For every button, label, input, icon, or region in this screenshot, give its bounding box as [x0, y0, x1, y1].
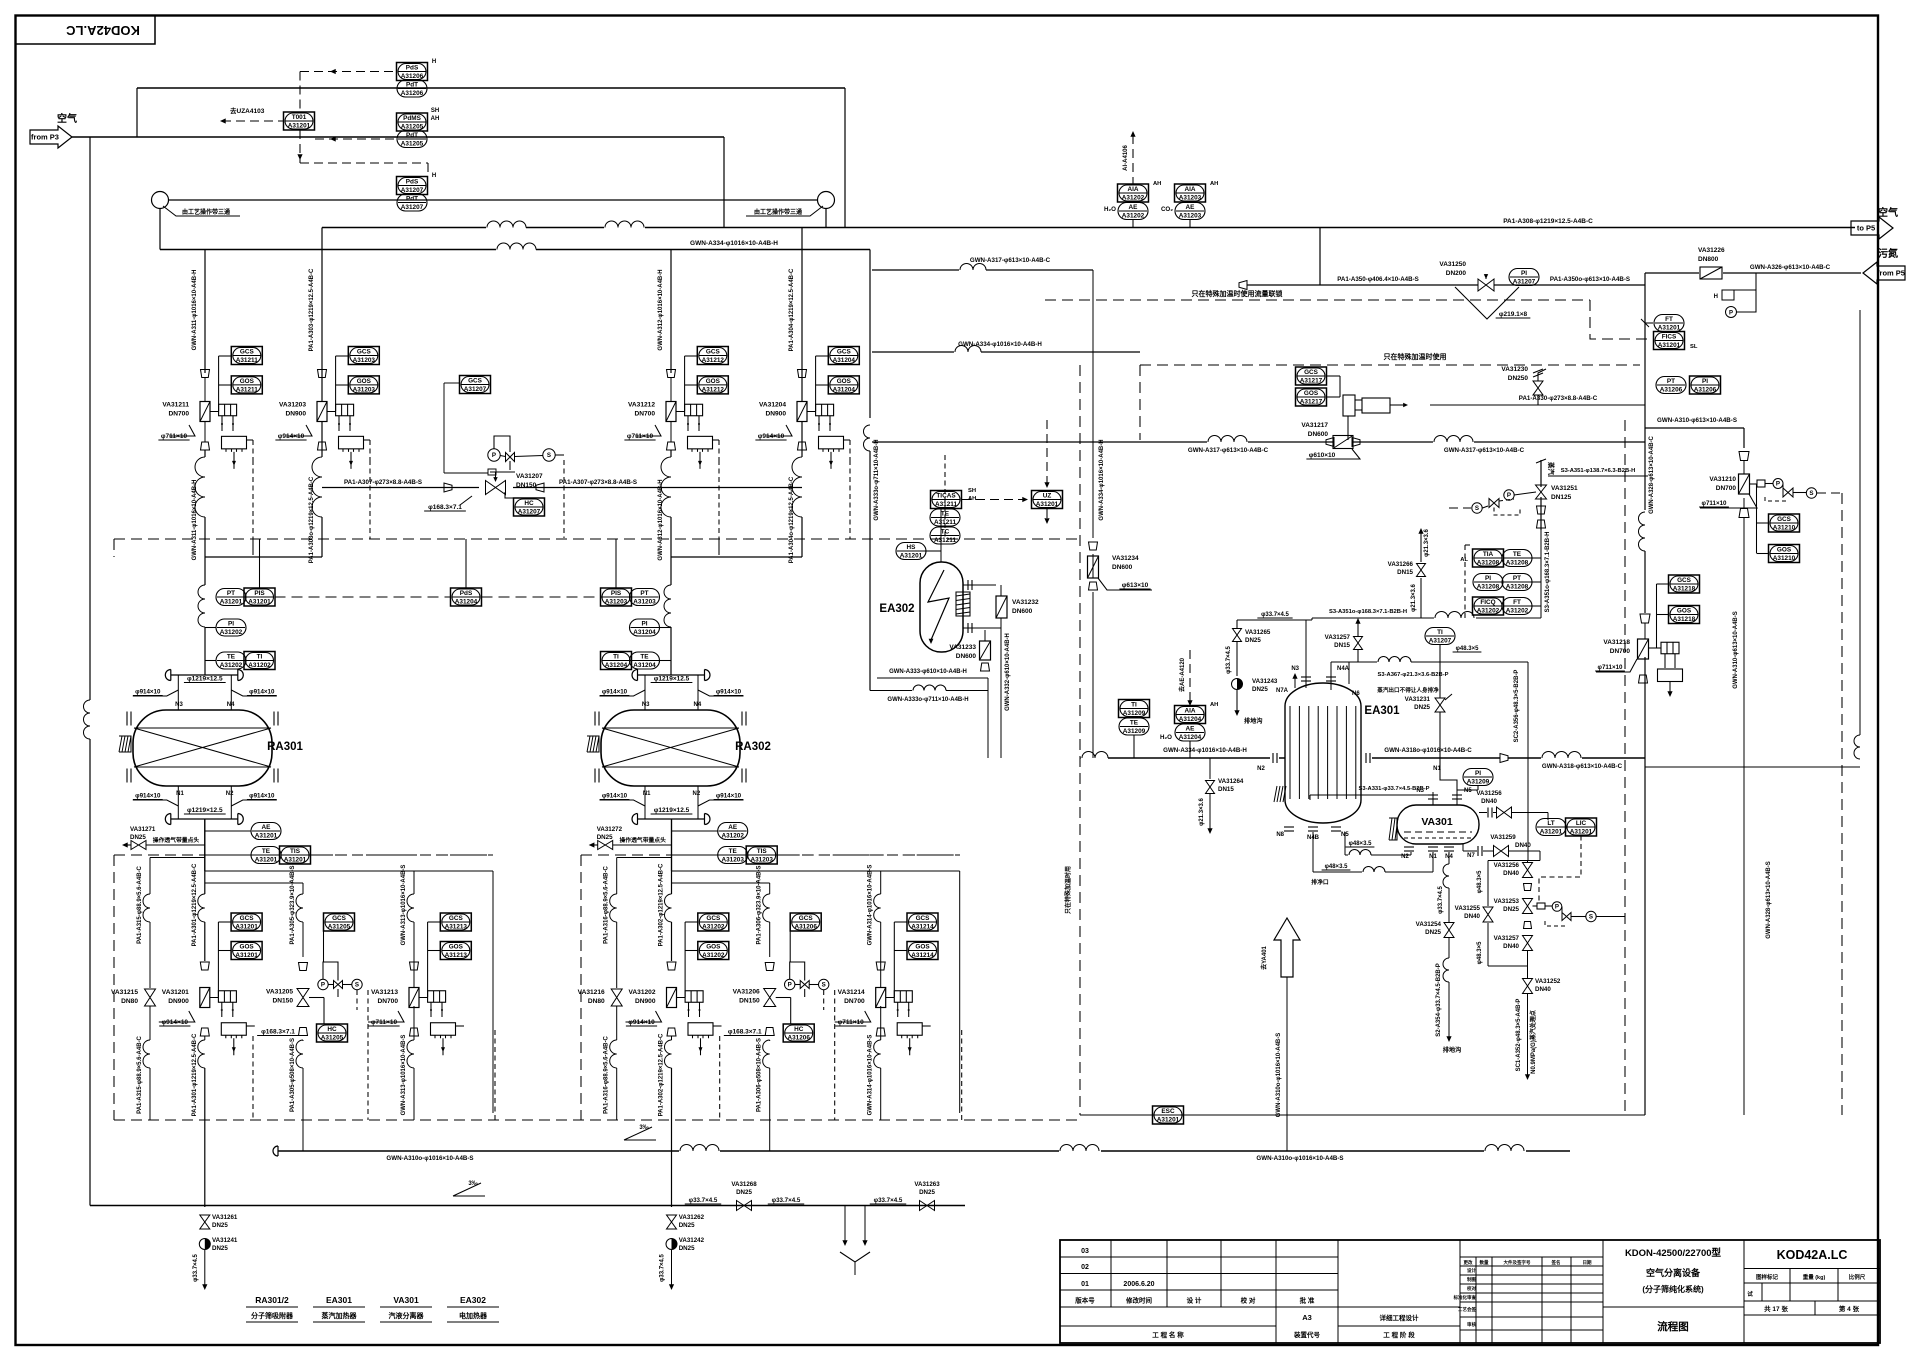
pipe riser x205 adsorber RA301 inlet [195, 250, 205, 676]
svg-text:VA31211: VA31211 [162, 402, 189, 409]
valve VA31252 DN40 [1516, 978, 1561, 1080]
svg-text:VA31217: VA31217 [1301, 422, 1328, 429]
svg-text:φ48.3×5: φ48.3×5 [1477, 941, 1483, 964]
svg-text:GWN-A333-φ610×10-A4B-H: GWN-A333-φ610×10-A4B-H [889, 669, 967, 675]
svg-text:TE: TE [1513, 551, 1522, 558]
svg-text:A31204: A31204 [1179, 716, 1202, 723]
svg-text:PIS: PIS [254, 590, 265, 597]
svg-text:KOD42A.LC: KOD42A.LC [1777, 1248, 1848, 1262]
svg-text:φ33.7×4.5: φ33.7×4.5 [772, 1197, 801, 1204]
svg-text:只在特殊加温时使用流量联锁: 只在特殊加温时使用流量联锁 [1192, 289, 1283, 298]
svg-text:DN15: DN15 [1218, 786, 1234, 793]
svg-text:A31201: A31201 [1157, 1117, 1180, 1124]
svg-text:A31203: A31203 [751, 857, 774, 864]
svg-text:试: 试 [1747, 1290, 1753, 1298]
svg-text:N8: N8 [1276, 832, 1284, 838]
pipe label PA1-A304 upper [789, 268, 795, 563]
svg-text:VA31256: VA31256 [1476, 790, 1502, 797]
svg-text:GWN-A317-φ613×10-A4B-C: GWN-A317-φ613×10-A4B-C [1188, 447, 1269, 454]
svg-text:A31201: A31201 [1036, 501, 1059, 508]
svg-text:工 程 名 称: 工 程 名 称 [1152, 1330, 1184, 1339]
instrument ESC A31201 [1153, 1106, 1184, 1124]
svg-text:GWN-A328-φ613×10-A4B-C: GWN-A328-φ613×10-A4B-C [1649, 435, 1655, 513]
svg-text:GCS: GCS [799, 915, 814, 922]
valve VA31241 DN25 ball [193, 1237, 238, 1290]
svg-text:PdS: PdS [406, 179, 419, 186]
instrument AIA A31203 CO2 analyzer [1161, 181, 1218, 213]
instrument GCS A31213 [428, 913, 472, 997]
svg-text:AE: AE [1186, 204, 1196, 211]
svg-text:DN800: DN800 [1698, 256, 1719, 263]
svg-text:VA31257: VA31257 [1494, 935, 1520, 942]
pipe PA1-A330 [1430, 395, 1645, 405]
dashed riser x253 [252, 460, 254, 555]
valve VA31242 DN25 ball [660, 1237, 705, 1290]
drain funnel [840, 1206, 870, 1276]
svg-text:S3-A351o-φ168.3×7.1-B2B-H: S3-A351o-φ168.3×7.1-B2B-H [1545, 532, 1551, 613]
svg-text:TI: TI [257, 654, 263, 661]
svg-text:A31206: A31206 [788, 1035, 811, 1042]
svg-text:P: P [321, 982, 325, 989]
svg-text:A31203: A31203 [353, 357, 376, 364]
svg-text:A31203: A31203 [722, 857, 745, 864]
svg-text:GOS: GOS [239, 944, 254, 951]
instrument PdS A31206 [397, 59, 437, 81]
svg-text:EA301: EA301 [326, 1295, 352, 1305]
svg-text:A31213: A31213 [445, 924, 468, 931]
svg-text:PA1-A315-φ88.9×5.6-A4B-C: PA1-A315-φ88.9×5.6-A4B-C [137, 865, 143, 943]
svg-text:VA31230: VA31230 [1501, 366, 1528, 373]
VA301 nozzles [1401, 788, 1475, 860]
svg-text:HC: HC [327, 1026, 337, 1033]
svg-text:VA31262: VA31262 [679, 1214, 705, 1221]
svg-text:GCS: GCS [449, 915, 464, 922]
valve VA31211 DN700 with actuator [158, 370, 253, 469]
svg-text:PI: PI [228, 621, 234, 628]
svg-text:详细工程设计: 详细工程设计 [1380, 1313, 1420, 1322]
svg-text:DN125: DN125 [1551, 494, 1572, 501]
svg-text:A31209: A31209 [1123, 710, 1146, 717]
positioner loop of VA31205 [318, 962, 362, 1010]
svg-text:SH: SH [968, 488, 976, 494]
instrument PdT A31207 [397, 194, 427, 211]
bottom manifold of RA302 [600, 786, 744, 871]
svg-text:PI: PI [1485, 575, 1491, 582]
svg-text:A31206: A31206 [1660, 387, 1683, 394]
svg-text:TI: TI [613, 654, 619, 661]
svg-text:A31201: A31201 [248, 599, 271, 606]
valve VA31271 DN25 [122, 826, 205, 850]
instrument TICAS A31211 [931, 488, 977, 562]
vessel EA301 steam heater [1274, 683, 1400, 823]
positioner loop VA31207 [488, 436, 564, 538]
svg-text:A31208: A31208 [1506, 584, 1529, 591]
svg-text:TE: TE [227, 654, 236, 661]
instrument HC A31207 [505, 492, 545, 516]
svg-text:蒸汽出口不得让人身排净: 蒸汽出口不得让人身排净 [1377, 686, 1439, 694]
positioner VA31210 [1750, 479, 1843, 502]
svg-text:UZ: UZ [1043, 493, 1052, 500]
pipe GWN-A310o y1151 [273, 1145, 1570, 1162]
svg-text:VA31242: VA31242 [679, 1237, 705, 1244]
svg-text:φ711×10: φ711×10 [161, 433, 188, 440]
svg-text:排地沟: 排地沟 [1443, 1046, 1462, 1054]
svg-text:PA1-A316-φ88.9×5.6-A4B-C: PA1-A316-φ88.9×5.6-A4B-C [604, 1035, 610, 1113]
svg-text:空气: 空气 [1878, 206, 1898, 219]
svg-text:GWN-A318-φ613×10-A4B-C: GWN-A318-φ613×10-A4B-C [1542, 763, 1623, 770]
pipe riser x322 [312, 228, 322, 558]
positioner VA31251 [1449, 490, 1536, 515]
instrument PIS A31201 [244, 539, 275, 606]
pipe GWN-A334 y352 [872, 341, 1140, 352]
signal lines PdS cluster [297, 69, 428, 177]
svg-text:3‰: 3‰ [468, 1181, 477, 1187]
pipe label GWN-A311 upper [192, 270, 198, 561]
svg-text:操作透气带量点头: 操作透气带量点头 [153, 836, 200, 844]
svg-text:H: H [432, 59, 436, 65]
valve VA31263 DN25 [914, 1181, 940, 1211]
instrument PI A31209 [1457, 769, 1493, 791]
svg-text:GWN-A310-φ613×10-A4B-S: GWN-A310-φ613×10-A4B-S [1733, 611, 1739, 688]
svg-text:装置代号: 装置代号 [1293, 1330, 1321, 1339]
svg-text:VA31266: VA31266 [1388, 561, 1414, 568]
pipe PA1-A350 y285 [1239, 276, 1645, 290]
instrument GOS A31214 [894, 942, 938, 960]
svg-text:N1: N1 [643, 791, 651, 797]
control valve VA31205 DN150 [257, 963, 324, 1036]
svg-text:流程图: 流程图 [1657, 1320, 1689, 1333]
svg-text:FT: FT [1665, 316, 1673, 323]
pipe riser x802 [792, 228, 802, 558]
svg-text:A31204: A31204 [1179, 734, 1202, 741]
svg-text:A31202: A31202 [702, 924, 725, 931]
svg-text:DN80: DN80 [121, 998, 138, 1005]
svg-text:VA31253: VA31253 [1494, 898, 1520, 905]
svg-text:KOD42A.LC: KOD42A.LC [66, 23, 140, 38]
svg-text:VA31216: VA31216 [578, 989, 605, 996]
instrument GCS A31207 [444, 376, 491, 474]
instrument GCS A31211 [219, 347, 263, 412]
svg-text:VA31213: VA31213 [371, 989, 398, 996]
svg-text:DN25: DN25 [1425, 929, 1441, 936]
control interlock trunk dashed y539 [114, 539, 1080, 557]
svg-text:RA301: RA301 [267, 741, 303, 753]
svg-text:DN200: DN200 [1446, 270, 1467, 277]
svg-text:φ168.3×7.1: φ168.3×7.1 [261, 1029, 295, 1036]
svg-text:TE: TE [1130, 720, 1139, 727]
instrument PI A31204 [630, 619, 672, 636]
instrument AE A31201 [205, 823, 281, 840]
svg-text:DN600: DN600 [1308, 431, 1329, 438]
svg-text:GWN-A332-φ610×10-A4B-H: GWN-A332-φ610×10-A4B-H [1005, 633, 1011, 711]
flag from P3 [30, 126, 72, 148]
control valve VA31206 DN150 [724, 963, 791, 1036]
svg-text:φ914×10: φ914×10 [716, 689, 742, 696]
svg-text:TE: TE [640, 654, 649, 661]
svg-text:AE: AE [1186, 726, 1196, 733]
svg-text:A31202: A31202 [702, 952, 725, 959]
valve VA31250 DN200 [1439, 261, 1494, 291]
valve VA31255 DN40 [1455, 905, 1493, 922]
instrument PdS A31207 [397, 173, 437, 195]
svg-text:φ914×10: φ914×10 [135, 689, 161, 696]
instrument TI A31204 [601, 652, 632, 670]
svg-text:VA31250: VA31250 [1439, 261, 1466, 268]
dashed box special heating [1140, 352, 1640, 440]
pipe riser x137 left [136, 88, 138, 137]
svg-text:A31208: A31208 [1477, 560, 1500, 567]
svg-text:(分子筛纯化系统): (分子筛纯化系统) [1642, 1284, 1704, 1294]
svg-text:数量: 数量 [1480, 1259, 1489, 1266]
svg-text:AE: AE [1129, 204, 1139, 211]
svg-text:A31209: A31209 [1467, 779, 1490, 786]
svg-text:TIA: TIA [1483, 551, 1494, 558]
svg-text:N2: N2 [226, 791, 234, 797]
svg-text:VA31203: VA31203 [279, 402, 306, 409]
instrument PdMS A31205 [397, 108, 440, 131]
svg-text:污氮: 污氮 [1878, 247, 1898, 260]
svg-text:A31211: A31211 [236, 387, 258, 394]
svg-text:GWN-A317-φ613×10-A4B-C: GWN-A317-φ613×10-A4B-C [1444, 447, 1525, 454]
valve VA31266 DN15 [1388, 528, 1430, 618]
svg-text:PI: PI [1702, 378, 1708, 385]
svg-text:VA31268: VA31268 [731, 1181, 757, 1188]
svg-text:P: P [1555, 904, 1559, 911]
svg-text:φ914×10: φ914×10 [758, 433, 785, 440]
svg-text:T001: T001 [292, 114, 307, 121]
valve VA31207 DN150 control [424, 472, 544, 511]
instrument AIA A31202 H2O analyzer [1104, 181, 1161, 213]
svg-text:PA1-A304-φ1219×12.5-A4B-C: PA1-A304-φ1219×12.5-A4B-C [789, 268, 795, 351]
svg-text:DN40: DN40 [1464, 913, 1480, 920]
svg-text:from P3: from P3 [31, 133, 59, 142]
svg-text:A31218: A31218 [1673, 616, 1696, 623]
instrument LT A31201 [1536, 819, 1566, 836]
instrument PI A31202 [205, 619, 246, 636]
line to YA401 [1260, 918, 1300, 1151]
svg-text:A31201: A31201 [220, 599, 243, 606]
svg-text:VA31233: VA31233 [949, 644, 976, 651]
pipe run to regeneration header [205, 871, 493, 1113]
svg-text:HC: HC [524, 500, 534, 507]
svg-text:PA1-A307-φ273×8.8-A4B-S: PA1-A307-φ273×8.8-A4B-S [559, 479, 637, 486]
instrument TE A31204 [630, 652, 672, 669]
valve VA31234 DN600 [1088, 542, 1153, 590]
svg-text:GOS: GOS [1777, 547, 1792, 554]
instrument GCS A31212 [685, 347, 729, 412]
dashed riser x945 [944, 455, 946, 539]
dashed riser x1625 [1624, 420, 1626, 1115]
instrument LIC A31201 [1566, 818, 1597, 836]
svg-text:AE: AE [262, 824, 272, 831]
svg-text:VA31254: VA31254 [1416, 921, 1442, 928]
svg-text:S: S [547, 452, 551, 459]
svg-text:TIS: TIS [290, 848, 301, 855]
svg-text:3‰: 3‰ [639, 1125, 648, 1131]
svg-text:φ914×10: φ914×10 [602, 689, 628, 696]
svg-text:P: P [492, 452, 496, 459]
pipe S3-A367 y662 [1331, 657, 1528, 679]
svg-text:只在特殊加温时用: 只在特殊加温时用 [1064, 866, 1072, 914]
svg-text:PA1-A301-φ1219×12.5-A4B-C: PA1-A301-φ1219×12.5-A4B-C [192, 1033, 198, 1116]
valve VA31243 DN25 ball [1232, 678, 1278, 725]
svg-text:DN40: DN40 [1481, 798, 1497, 805]
svg-text:VA31201: VA31201 [162, 989, 189, 996]
svg-text:GOS: GOS [837, 378, 852, 385]
EA301 top nozzles [1276, 620, 1360, 697]
svg-text:P: P [1729, 311, 1733, 317]
svg-text:φ33.7×4.5: φ33.7×4.5 [1261, 612, 1289, 618]
svg-text:VA31231: VA31231 [1405, 696, 1431, 703]
svg-text:A31205: A31205 [401, 141, 424, 148]
pipe y767 to right [1645, 310, 1860, 767]
pipe riser PA1-A305-&#966;323.9&#215;10-A4B-S [205, 865, 303, 1151]
svg-text:签名: 签名 [1551, 1259, 1561, 1266]
svg-text:设 计: 设 计 [1187, 1296, 1202, 1305]
electric heater element [1343, 395, 1408, 440]
svg-text:去AE-A4120: 去AE-A4120 [1178, 657, 1186, 692]
pipe jog x802 to x671 y557 [671, 556, 802, 558]
svg-text:GCS: GCS [706, 915, 721, 922]
svg-text:DN25: DN25 [1503, 906, 1519, 913]
svg-text:PA1-A350o-φ613×10-A4B-S: PA1-A350o-φ613×10-A4B-S [1550, 276, 1630, 283]
pipe label GWN-A328 vertical [1649, 435, 1772, 938]
main air pipe PA1-A308 y227.5 [322, 218, 1855, 228]
valve VA31204 DN900 with actuator [755, 370, 850, 469]
svg-text:VA31212: VA31212 [628, 402, 655, 409]
instrument TE A31211 [930, 509, 960, 526]
svg-text:DN700: DN700 [168, 411, 189, 418]
instrument PdT A31206 [397, 80, 427, 97]
instrument HC A31205 [317, 998, 348, 1043]
svg-text:φ711×10: φ711×10 [371, 1019, 398, 1026]
svg-text:φ610×10: φ610×10 [1309, 452, 1336, 459]
svg-text:分子筛吸附器: 分子筛吸附器 [251, 1311, 294, 1320]
instrument GCS A31218 [1657, 575, 1700, 648]
instrument PI A31207 [1509, 269, 1539, 287]
pipe EA301 N4B to VA301 N1 [1311, 852, 1433, 886]
instrument TC A31211 [930, 527, 960, 544]
vessel VA301 separator [1389, 805, 1479, 844]
svg-text:02: 02 [1081, 1264, 1089, 1271]
svg-text:SL: SL [1690, 344, 1698, 350]
instrument UZ A31201 [962, 420, 1063, 524]
svg-text:DN25: DN25 [1252, 686, 1268, 693]
svg-text:工艺会签: 工艺会签 [1458, 1306, 1476, 1313]
svg-text:TE: TE [729, 848, 738, 855]
svg-text:日期: 日期 [1583, 1259, 1592, 1266]
svg-text:GCS: GCS [468, 378, 483, 385]
slope mark 1 [453, 1181, 485, 1196]
svg-text:GOS: GOS [706, 944, 721, 951]
instrument TE A31209 [1119, 718, 1149, 758]
svg-text:PT: PT [1513, 575, 1521, 582]
valve VA31231 DN25 relief [1405, 662, 1457, 790]
svg-text:A31203: A31203 [1179, 213, 1202, 220]
pipe GWN-A333o y691 [870, 678, 988, 758]
svg-text:批 准: 批 准 [1300, 1296, 1315, 1305]
instrument AIA A31204 [1175, 702, 1219, 724]
svg-text:φ1219×12.5: φ1219×12.5 [654, 676, 690, 683]
svg-text:N3: N3 [1291, 666, 1299, 672]
svg-text:AH: AH [431, 116, 440, 122]
instrument PdS A31204 shared [451, 539, 482, 606]
instrument GCS A31202 [685, 913, 729, 997]
valve VA31258 DN40 [1497, 807, 1512, 818]
svg-text:PT: PT [640, 590, 648, 597]
svg-text:汽液分离器: 汽液分离器 [389, 1311, 425, 1320]
instrument FICS A31201 [1654, 332, 1698, 351]
svg-text:A31203: A31203 [605, 599, 628, 606]
svg-text:A31201: A31201 [1540, 829, 1563, 836]
svg-text:DN25: DN25 [679, 1245, 695, 1252]
svg-text:校 对: 校 对 [1241, 1296, 1256, 1305]
instrument TIS A31201 [280, 846, 494, 864]
valve VA31251 DN125 [1536, 485, 1579, 528]
instrument GOS A31217 [1296, 376, 1341, 406]
svg-text:A31209: A31209 [1123, 728, 1146, 735]
svg-text:DN40: DN40 [1503, 870, 1519, 877]
signal line to UZA4103 [220, 106, 283, 124]
svg-text:A31206: A31206 [795, 924, 818, 931]
svg-text:PA1-A305-φ323.9×10-A4B-S: PA1-A305-φ323.9×10-A4B-S [290, 865, 296, 944]
instrument TI A31202 [244, 652, 275, 670]
svg-text:HC: HC [794, 1026, 804, 1033]
svg-text:GCS: GCS [1677, 577, 1692, 584]
svg-text:PA1-A306-φ323.9×10-A4B-S: PA1-A306-φ323.9×10-A4B-S [757, 865, 763, 944]
svg-text:A31207: A31207 [464, 386, 487, 393]
svg-text:φ1219×12.5: φ1219×12.5 [187, 807, 223, 814]
svg-text:RA301/2: RA301/2 [255, 1295, 289, 1305]
pipe label GWN-A333o vertical [874, 439, 880, 520]
svg-text:A31204: A31204 [833, 357, 856, 364]
svg-text:φ711×10: φ711×10 [1702, 500, 1727, 507]
svg-text:VA31204: VA31204 [759, 402, 786, 409]
svg-text:SC2-A356-φ48.3×5-B2B-P: SC2-A356-φ48.3×5-B2B-P [1514, 670, 1520, 743]
svg-text:KDON-42500/22700型: KDON-42500/22700型 [1625, 1247, 1722, 1259]
svg-text:φ168.3×7.1: φ168.3×7.1 [428, 504, 462, 511]
svg-text:A31207: A31207 [518, 509, 541, 516]
svg-text:A31202: A31202 [1122, 213, 1145, 220]
svg-text:φ48.3×5: φ48.3×5 [1477, 870, 1483, 893]
positioner loop of VA31206 [785, 962, 829, 1010]
pipe jog x322 to x205 y557 [205, 556, 322, 558]
instrument GCS A31210 [1757, 484, 1800, 553]
svg-text:FT: FT [1513, 599, 1521, 606]
svg-text:φ21.3×3.6: φ21.3×3.6 [1424, 528, 1430, 556]
svg-text:VA31257: VA31257 [1325, 634, 1351, 641]
svg-text:VA31232: VA31232 [1012, 599, 1039, 606]
svg-text:P: P [788, 982, 792, 989]
svg-text:GCS: GCS [332, 915, 347, 922]
pressure gauge assembly [1714, 273, 1756, 318]
svg-text:PIS: PIS [611, 590, 622, 597]
pipe label PA1-A303 upper [309, 268, 315, 563]
valve VA31272 DN25 [589, 826, 672, 850]
svg-text:A31201: A31201 [1658, 325, 1681, 332]
pipe riser x870 center [864, 250, 870, 691]
svg-text:GCS: GCS [916, 915, 931, 922]
svg-text:TIS: TIS [757, 848, 768, 855]
legend equipment table [246, 1295, 499, 1322]
pipe from P3 y137 [72, 136, 724, 138]
svg-text:φ33.7×4.5: φ33.7×4.5 [1226, 645, 1232, 673]
svg-text:N4: N4 [694, 702, 702, 708]
svg-text:DN25: DN25 [919, 1189, 935, 1196]
svg-text:DN15: DN15 [1334, 642, 1350, 649]
pipe riser x1320 to main [1319, 228, 1321, 286]
svg-text:2006.6.20: 2006.6.20 [1123, 1281, 1154, 1288]
